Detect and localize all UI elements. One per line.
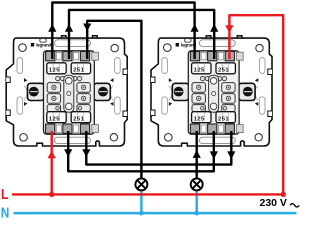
- red arrow down at SW2 top terminal 3: [225, 25, 233, 33]
- arrow up on wire at SW1 terminal 1: [48, 24, 56, 32]
- wire: upper bottom run from SW1 bottom terminal 3 to SW2 bottom terminal 3: [86, 131, 231, 165]
- arrow down on wire at SW1 terminal 3: [83, 24, 91, 32]
- junction dot on L at SW1 feed: [49, 192, 54, 197]
- blue neutral stub to lamp E1: [140, 190, 142, 213]
- N neutral line: [14, 212, 297, 215]
- svg-text:L: L: [1, 186, 8, 203]
- arrow down on wire at SW1 bottom terminal 2: [64, 149, 72, 157]
- arrow down on wire at SW1 bottom terminal 3: [82, 149, 90, 157]
- lamp E1: [135, 178, 147, 190]
- blue neutral stub to lamp E2: [195, 190, 197, 213]
- lamp E2: [191, 178, 203, 190]
- wire: shuttle run T1 from SW1 top terminal 2 to SW2 top terminal 2: [69, 10, 214, 59]
- AC sine symbol: [290, 204, 299, 207]
- wire: shuttle run T0 from SW1 top terminal 1 to SW2 top terminal 1: [52, 3, 194, 60]
- svg-text:230 V: 230 V: [260, 197, 287, 209]
- svg-text:N: N: [1, 205, 10, 221]
- arrow down on wire at SW2 bottom terminal 2: [210, 151, 218, 159]
- junction dot on N at lamp E2: [194, 211, 199, 216]
- arrow down on wire at SW2 bottom terminal 3: [227, 151, 235, 159]
- wire: T2 from SW1 top terminal 3 to lamp E1: [87, 21, 141, 178]
- arrow up on wire at SW2 terminal 2: [210, 24, 218, 32]
- L phase line: [12, 193, 283, 195]
- red phase wire from L line right corner to SW2 top terminal 3: [229, 15, 283, 194]
- arrow up on lamp E2 feed: [193, 150, 201, 158]
- red phase wire from L line to SW1 bottom terminal 1: [51, 131, 53, 194]
- junction dot on N at lamp E1: [139, 211, 144, 216]
- arrow up on wire at SW2 terminal 1: [191, 24, 199, 32]
- switch SW2 (right Legrand double two-way switch, rear view): [151, 36, 272, 146]
- red arrow up at SW1 bottom terminal 1: [48, 150, 56, 158]
- junction dot on L at right riser: [281, 192, 286, 197]
- arrow up on wire at SW1 terminal 2: [65, 24, 73, 32]
- wire: lamp E2 feed from SW2 bottom terminal 1: [195, 131, 197, 178]
- switch SW1 (left Legrand double two-way switch, rear view): [6, 36, 127, 146]
- wire: lower bottom run from SW1 bottom terminal 2 to SW2 bottom terminal 2: [68, 131, 214, 171]
